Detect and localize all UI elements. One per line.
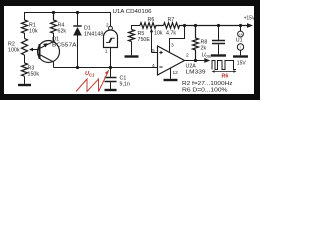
wiper arrow of R2 [33,49,40,51]
svg-text:4: 4 [152,63,155,69]
svg-text:2: 2 [106,23,109,29]
svg-text:Uout: Uout [202,52,213,58]
wiper arrow of R6 [151,32,153,53]
svg-text:LM339: LM339 [186,70,206,76]
svg-text:R6 D=0...100%: R6 D=0...100% [182,87,228,93]
svg-text:BC557A: BC557A [52,43,77,49]
potentiometer R6 [140,23,164,29]
svg-text:15V: 15V [237,61,247,67]
resistor R3 [22,63,28,76]
node junction pin3 [183,24,186,27]
svg-text:R6: R6 [148,17,155,23]
svg-text:10k: 10k [29,29,38,35]
svg-text:1: 1 [105,49,108,55]
wire U1A output rail top-left [25,13,111,27]
node junction R8 [194,24,197,27]
svg-text:R6: R6 [222,74,229,80]
wire R3 to ground [24,77,26,85]
svg-text:150k: 150k [28,72,40,78]
diode D1 [73,25,81,27]
ground U1 [233,55,248,57]
wire D1 top [77,13,79,26]
svg-text:1N4148: 1N4148 [84,31,104,37]
capacitor C1 [110,68,112,77]
ground C2 [211,54,226,56]
resistor R1 [22,20,28,33]
node junction R4 top [52,11,55,14]
svg-text:+15V: +15V [244,16,255,22]
output terminal arrow [204,58,210,63]
Schmitt inverter U1A body [104,30,118,47]
U1 supply pin 7 [237,44,243,50]
wire R6 wiper to comparator [152,52,158,54]
svg-text:100k: 100k [8,48,20,54]
svg-text:5: 5 [152,48,155,54]
svg-text:12: 12 [173,70,179,76]
capacitor C2 [218,26,220,41]
wire U2A pin3 supply [170,26,185,53]
U1 supply pin 14 [240,26,242,32]
duty cycle arrow [214,71,235,73]
frame border [0,0,260,100]
svg-text:2: 2 [186,53,189,59]
svg-text:UC1: UC1 [85,71,95,78]
node junction D1 top [76,11,79,14]
node junction output [194,59,197,62]
waveform UC1 sawtooth [76,69,110,91]
comparator U2A [158,46,185,75]
resistor R4 [51,13,57,34]
svg-text:62k: 62k [58,29,67,35]
wire U2A output [185,60,205,62]
svg-text:R7: R7 [168,17,175,23]
wire U2A pin12 [170,68,172,79]
potentiometer R2 [22,39,28,56]
output square wave [212,61,236,70]
svg-text:U1: U1 [236,38,243,44]
svg-text:10k: 10k [154,31,163,37]
svg-text:2k: 2k [201,46,207,52]
resistor R8 [193,26,199,61]
transistor Q1 [38,41,60,63]
svg-text:U1A CD40106: U1A CD40106 [113,9,152,15]
wire sawtooth node [54,67,158,69]
wire R5 top rail [132,26,141,30]
svg-text:9,1n: 9,1n [120,81,130,87]
wire D1 bottom [77,35,79,68]
node junction C2 [217,24,220,27]
wire U1A output [110,48,112,68]
wire R2 to R3 [24,55,26,63]
svg-text:R2 f=27...1000Hz: R2 f=27...1000Hz [182,81,233,87]
node junction U1 supply [239,24,242,27]
wire R5 to ground [131,42,133,56]
svg-text:4.7k: 4.7k [166,31,176,37]
ground C1 [105,89,117,91]
svg-text:14: 14 [239,33,243,37]
wire R4 to Q1 emitter [53,33,55,42]
node junction D1 bottom [76,66,79,69]
ground U2A [164,79,178,81]
ground R5 [125,55,139,57]
wire R1 to R2 [24,33,26,39]
svg-text:750E: 750E [138,37,151,43]
+15V supply arrow [247,23,253,28]
wire Q1 collector down [53,62,55,68]
resistor R5 [129,30,135,42]
ground R3 [18,84,31,86]
node junction C1 top [109,66,112,69]
resistor R7 [164,23,248,29]
svg-text:3: 3 [171,43,174,49]
